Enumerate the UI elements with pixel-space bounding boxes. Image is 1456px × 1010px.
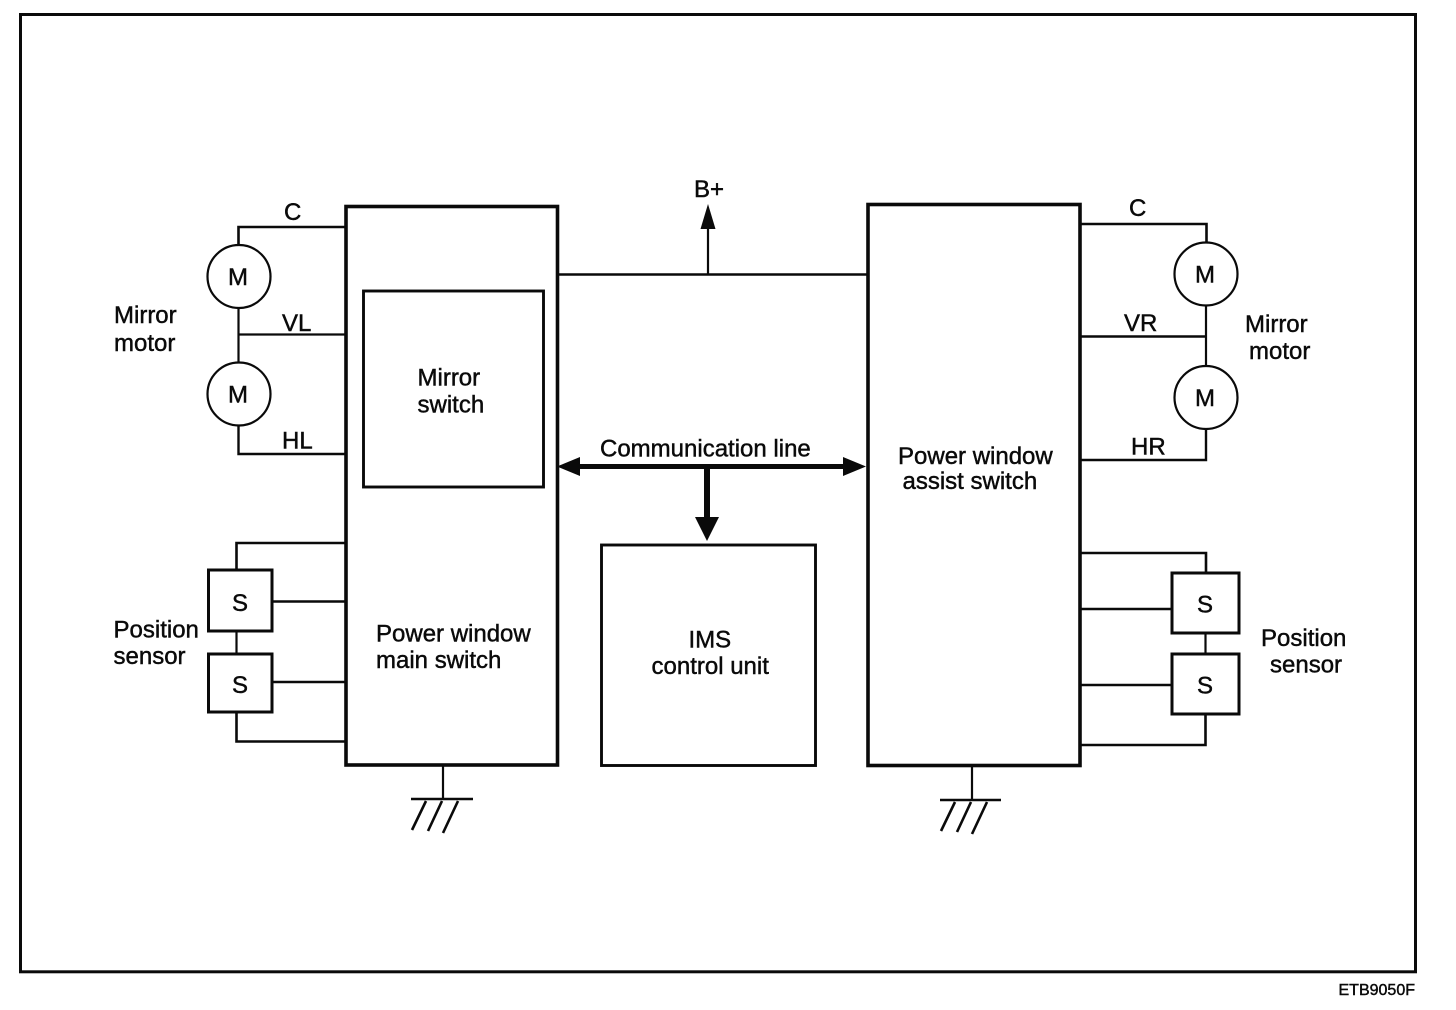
wire: M3 to M4 (right) [1205,306,1207,367]
svg-text:Power window: Power window [376,621,531,648]
label: Position sensor (right) [1261,625,1346,679]
wire: right sensor top feed [1081,553,1206,573]
svg-text:C: C [284,199,301,226]
wire: S3 to S4 (right) [1204,633,1206,654]
svg-text:M: M [1195,385,1215,412]
wire: left sensor top feed [237,543,347,570]
svg-text:S: S [232,672,248,699]
sensor S2 (left position sensor) [209,654,273,712]
label: Mirror motor (left) [114,302,177,357]
svg-text:assist switch: assist switch [903,468,1038,495]
wire HR [1081,429,1206,460]
svg-text:Power window: Power window [898,443,1053,470]
svg-text:VR: VR [1124,310,1157,337]
svg-text:control unit: control unit [652,653,770,680]
svg-text:S: S [232,590,248,617]
motor M4 (right mirror motor, horizontal) [1175,366,1238,429]
wire VR [1081,335,1206,337]
svg-text:S: S [1197,673,1213,700]
node B+ (supply arrow) [694,176,724,275]
wire: communication line (double-headed arrow) [557,457,866,476]
label: Position sensor (left) [114,617,199,671]
wire: right sensor bottom return [1081,714,1206,745]
svg-text:B+: B+ [694,176,724,203]
svg-text:motor: motor [114,330,175,357]
svg-text:M: M [1195,262,1215,289]
svg-text:sensor: sensor [114,643,186,670]
sensor S3 (right position sensor) [1172,573,1239,633]
wire: S3 input (right) [1081,608,1172,610]
svg-text:Mirror: Mirror [418,365,481,392]
ground (right, below U2) [940,766,1001,835]
svg-text:M: M [228,382,248,409]
svg-text:VL: VL [282,310,311,337]
svg-text:motor: motor [1249,338,1310,365]
block U3: IMS control unit [602,545,816,766]
svg-text:Communication line: Communication line [600,436,811,463]
svg-text:C: C [1129,195,1146,222]
svg-text:Position: Position [114,617,199,644]
svg-text:Mirror: Mirror [1245,311,1308,338]
block U2: Power window assist switch [868,205,1080,766]
motor M1 (left mirror motor, vertical) [208,245,271,308]
motor M2 (left mirror motor, horizontal) [208,363,271,426]
wire: B+ supply line between U1 and U2 [558,273,869,275]
wire: S2 output (left) [272,681,346,683]
wire C (right) [1081,224,1207,243]
svg-text:IMS: IMS [689,627,732,654]
label: Mirror motor (right) [1245,311,1310,365]
ground (left, below U1) [411,766,473,834]
block: Mirror switch (inside U1) [364,291,544,487]
svg-text:Mirror: Mirror [114,302,177,329]
svg-text:ETB9050F: ETB9050F [1339,982,1416,999]
wire: M1 to M2 (left) [237,308,239,363]
motor M3 (right mirror motor, vertical) [1175,243,1238,306]
wire: S4 input (right) [1081,684,1172,686]
wire: S1 output (left) [272,600,346,602]
svg-text:HR: HR [1131,434,1166,461]
wire: communication line drop to IMS (down arrow) [695,467,719,542]
wire: left sensor bottom return [237,712,347,742]
svg-text:M: M [228,264,248,291]
svg-text:S: S [1197,592,1213,619]
wire C (left) [239,227,347,245]
wire HL [239,426,347,455]
svg-text:sensor: sensor [1270,652,1342,679]
block U1: Power window main switch [346,207,558,766]
sensor S4 (right position sensor) [1172,654,1239,714]
svg-text:HL: HL [282,428,313,455]
svg-text:switch: switch [418,392,485,419]
svg-text:main switch: main switch [376,647,501,674]
sensor S1 (left position sensor) [209,570,273,631]
wire VL [239,333,347,335]
svg-text:Position: Position [1261,625,1346,652]
wire: S1 to S2 (left) [235,631,237,654]
